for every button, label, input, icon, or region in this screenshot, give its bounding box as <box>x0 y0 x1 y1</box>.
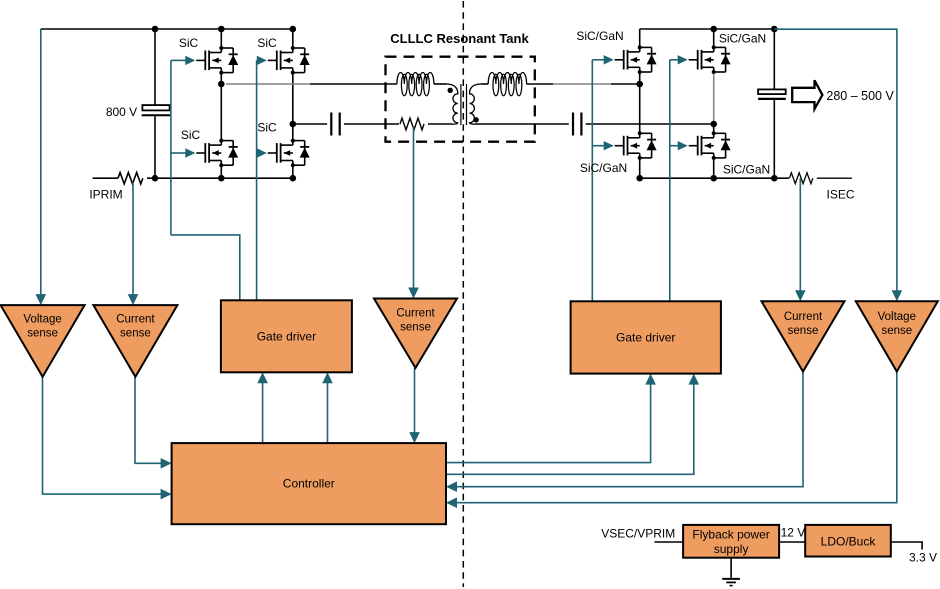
svg-text:Current: Current <box>396 308 435 320</box>
svg-text:ISEC: ISEC <box>826 188 854 202</box>
svg-text:800 V: 800 V <box>106 105 137 119</box>
svg-text:sense: sense <box>120 328 151 340</box>
svg-text:VSEC/VPRIM: VSEC/VPRIM <box>601 527 675 541</box>
svg-text:SiC/GaN: SiC/GaN <box>723 163 770 177</box>
svg-text:Controller: Controller <box>283 477 335 491</box>
svg-text:Voltage: Voltage <box>878 311 916 323</box>
svg-text:SiC: SiC <box>181 128 201 142</box>
svg-text:Gate driver: Gate driver <box>616 331 675 345</box>
svg-text:SiC: SiC <box>257 36 277 50</box>
svg-text:sense: sense <box>27 328 58 340</box>
svg-text:Flyback power: Flyback power <box>692 528 769 542</box>
svg-text:Current: Current <box>784 311 823 323</box>
svg-text:supply: supply <box>714 542 749 556</box>
svg-text:12 V: 12 V <box>781 526 806 540</box>
svg-text:SiC/GaN: SiC/GaN <box>719 32 766 46</box>
svg-text:SiC: SiC <box>257 121 277 135</box>
svg-text:sense: sense <box>788 325 819 337</box>
svg-text:sense: sense <box>881 325 912 337</box>
svg-text:SiC/GaN: SiC/GaN <box>580 161 627 175</box>
svg-text:SiC/GaN: SiC/GaN <box>576 29 623 43</box>
svg-text:LDO/Buck: LDO/Buck <box>821 535 877 549</box>
svg-text:Current: Current <box>116 314 155 326</box>
svg-text:CLLLC Resonant Tank: CLLLC Resonant Tank <box>390 31 529 46</box>
svg-text:Gate driver: Gate driver <box>257 330 316 344</box>
svg-text:SiC: SiC <box>179 36 199 50</box>
svg-text:sense: sense <box>400 322 431 334</box>
svg-text:Voltage: Voltage <box>23 314 61 326</box>
svg-text:3.3 V: 3.3 V <box>909 551 937 565</box>
svg-text:280 – 500 V: 280 – 500 V <box>826 89 894 103</box>
svg-text:IPRIM: IPRIM <box>89 188 122 202</box>
